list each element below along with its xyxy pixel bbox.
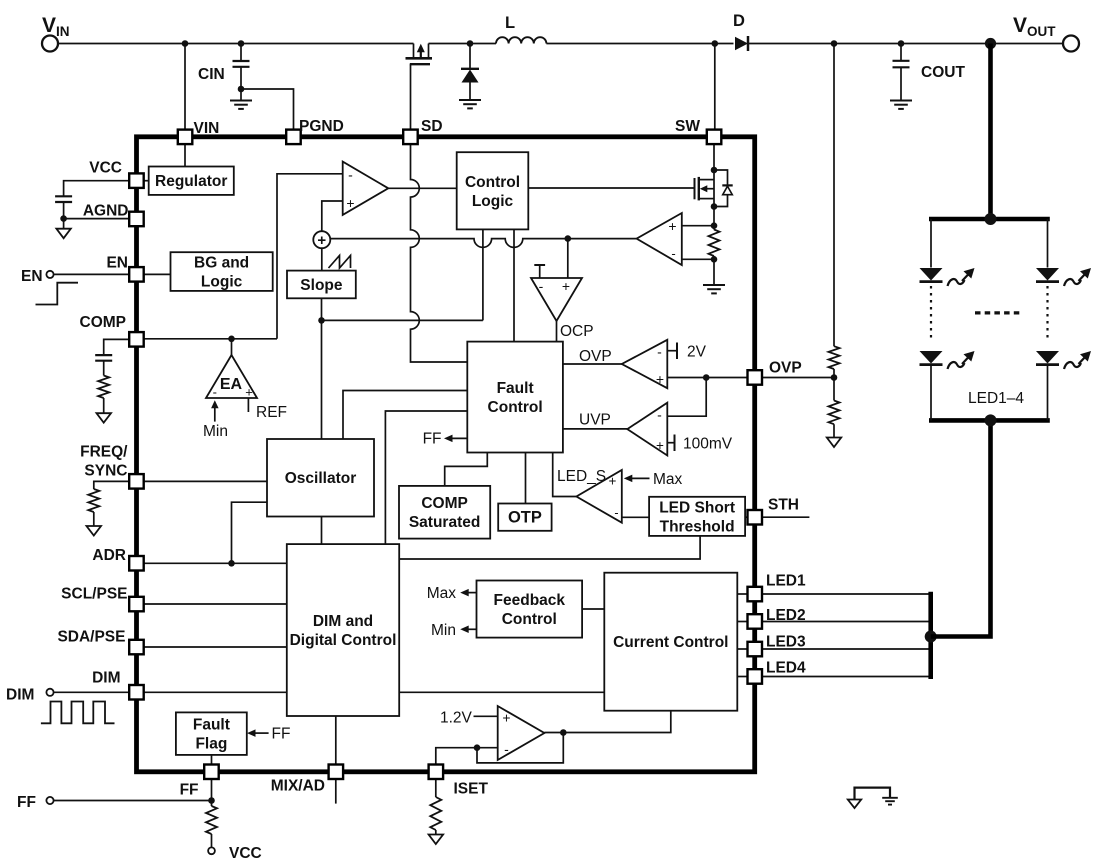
ground FREQ/SYNC (arrow) (87, 526, 102, 536)
wire OVP lower resistor to ground (833, 424, 835, 437)
EA REF input (247, 398, 249, 412)
svg-text:ISET: ISET (454, 781, 489, 798)
LED D6 (string 2 bottom) (1036, 351, 1091, 369)
label pin MIX/AD (271, 778, 325, 795)
wire gate from Control Logic (528, 187, 694, 189)
svg-text:Control: Control (465, 174, 520, 191)
wire D to VOUT (747, 43, 1063, 45)
diode D2 clamp (cathode up) (461, 69, 479, 100)
wire CS amp plus input (682, 225, 714, 227)
op-amp OVP comparator (622, 340, 668, 388)
wire LED Short Threshold to STH pin (745, 516, 747, 518)
wire LED return bus (thick) (928, 592, 933, 679)
DIM PWM waveform symbol (41, 702, 115, 724)
wire COMP pin to RC (104, 339, 130, 354)
wire control logic pin1 horizontal (322, 319, 483, 321)
pin LED4 (748, 669, 763, 684)
label pin OVP (769, 360, 802, 377)
svg-text:D: D (733, 12, 745, 30)
svg-text:Logic: Logic (472, 193, 514, 210)
wire Q1 to L (429, 43, 497, 45)
wire LED string2 top lead (1047, 219, 1049, 268)
wire Control Logic pin1 down (482, 229, 484, 320)
svg-text:SYNC: SYNC (84, 463, 127, 480)
diode body diode of Q2 (714, 170, 733, 207)
wire SD pin line with hop bumps to Fault Control (411, 144, 468, 362)
svg-text:-: - (348, 167, 353, 183)
ground clamp diode (earth) (459, 100, 481, 108)
node VCC terminal (208, 847, 215, 854)
wire FF resistor to VCC (211, 834, 213, 848)
wire COMP pin line (144, 338, 278, 340)
wire LED string1 dotted (930, 286, 932, 338)
svg-text:Control: Control (502, 611, 557, 628)
svg-text:UVP: UVP (579, 412, 611, 429)
wire clamp diode lead (469, 44, 471, 69)
junction slope-control logic node (318, 317, 325, 324)
label 100mV (683, 436, 733, 453)
summing node (slope add) (313, 231, 330, 249)
svg-text:FF: FF (272, 726, 291, 743)
capacitor VCC bypass (55, 196, 72, 202)
label pin VCC (89, 160, 122, 177)
wire FREQ resistor to ground (93, 512, 95, 526)
label pin DIM (92, 670, 120, 687)
label 1.2V (440, 710, 473, 727)
block Oscillator (267, 439, 374, 517)
label REF (256, 404, 287, 421)
svg-text:-: - (504, 741, 509, 757)
pin SCL/PSE (129, 597, 144, 612)
wire CIN bottom lead (240, 67, 242, 89)
junction OCP tap on CS line (565, 235, 572, 242)
label pin LED1 (766, 573, 806, 590)
op-amp UVP comparator (627, 403, 667, 456)
svg-text:CIN: CIN (198, 66, 225, 83)
wire LED string2 bottom lead (1047, 366, 1049, 421)
wire FF pin down (211, 779, 213, 806)
svg-text:-: - (657, 344, 662, 360)
wire Q1 gate to SD pin (410, 64, 412, 130)
label pin SCL/PSE (61, 586, 127, 603)
wire Fault Control to COMP Saturated (445, 453, 488, 486)
wire CS amp minus input (682, 258, 714, 260)
block Fault Flag (176, 712, 247, 755)
OCP minus reference (534, 265, 545, 278)
pin LED2 (748, 614, 763, 629)
svg-text:PGND: PGND (299, 118, 344, 135)
pin SD (403, 130, 418, 145)
wire VCC cap to AGND node (63, 202, 65, 219)
op-amp EA error amplifier (206, 355, 257, 400)
junction CIN tap (238, 40, 245, 47)
junction OVP node (703, 374, 710, 381)
svg-text:-: - (657, 407, 662, 423)
svg-text:OCP: OCP (560, 323, 594, 340)
svg-text:OVP: OVP (579, 348, 612, 365)
label pin STH (768, 497, 799, 514)
op-amp CS current sense amplifier (637, 213, 682, 265)
wire DIM terminal to pin (54, 691, 130, 693)
svg-text:FF: FF (17, 794, 36, 811)
wire LED string bottom rail (thick) (929, 418, 1050, 423)
label Min (feedback) (431, 622, 456, 639)
svg-text:Max: Max (427, 585, 457, 602)
block Current Control (604, 573, 737, 711)
svg-text:DIM and: DIM and (313, 613, 373, 630)
node DIM terminal (46, 689, 53, 696)
junction VOUT LED drop (thick) (985, 38, 996, 49)
junction MOSFET source node (711, 203, 718, 210)
svg-text:EN: EN (21, 268, 43, 285)
sawtooth slope symbol (329, 256, 351, 269)
wire ADR pin line (144, 562, 287, 564)
block COMP Saturated (399, 486, 490, 539)
svg-text:Slope: Slope (300, 277, 343, 294)
junction COUT tap (898, 40, 905, 47)
svg-text:EN: EN (106, 255, 128, 272)
junction LED return node (thick) (925, 631, 937, 643)
svg-text:Min: Min (203, 423, 228, 440)
wire LED return to string bottom (thick) (931, 420, 991, 636)
regulator block (149, 167, 234, 195)
junction clamp diode tap (467, 40, 474, 47)
op-amp LED_S comparator (576, 470, 621, 523)
wire OVP comparator output (563, 363, 622, 365)
wire summing node to Slope box (321, 248, 323, 270)
wire EN terminal to pin (54, 273, 130, 275)
label D (733, 12, 745, 30)
op-amp OCP comparator (531, 278, 582, 321)
svg-text:Fault: Fault (497, 380, 534, 397)
wire SW pin to internal MOSFET (713, 144, 715, 226)
resistor OVP upper (829, 346, 840, 369)
resistor FF pullup (206, 806, 217, 834)
wire LED string2 dotted (1046, 286, 1048, 338)
wire COMP resistor to ground (103, 398, 105, 413)
pin VCC (129, 173, 144, 188)
label VOUT (1013, 14, 1056, 39)
ground OVP divider (arrow) (827, 438, 841, 448)
wire buffer output to Current Control (544, 711, 670, 733)
IC U1 body outline (137, 137, 755, 772)
junction sense resistor bottom (711, 256, 718, 263)
wire CIN ground stem (240, 89, 242, 100)
ground CIN (earth) (230, 101, 252, 109)
label pin FF (180, 782, 199, 799)
wire ISET resistor to ground (435, 830, 437, 835)
pin SW (707, 130, 722, 145)
svg-text:SDA/PSE: SDA/PSE (57, 629, 125, 646)
svg-text:1.2V: 1.2V (440, 710, 473, 727)
svg-text:Regulator: Regulator (155, 173, 227, 190)
pin ISET (429, 765, 444, 780)
resistor ISET (430, 797, 441, 830)
label Max (LED_S) (653, 471, 683, 488)
wire MIX/AD stub (335, 779, 337, 804)
svg-text:LED1: LED1 (766, 573, 806, 590)
svg-text:DIM: DIM (92, 670, 120, 687)
node FF terminal (46, 797, 53, 804)
junction buffer minus node (474, 744, 481, 751)
svg-text:AGND: AGND (83, 203, 129, 220)
ground AGND (arrow) (56, 229, 70, 239)
label EN (external) (21, 268, 43, 285)
inductor L (496, 37, 546, 43)
svg-text:-: - (213, 385, 217, 400)
capacitor COUT (893, 61, 910, 68)
svg-text:Threshold: Threshold (660, 518, 735, 535)
junction FF node (208, 797, 215, 804)
junction VIN pin drop (182, 40, 189, 47)
wire COUT bottom lead (900, 67, 902, 100)
wire Current Control to LED4 pin (737, 676, 747, 678)
wire LED string1 bottom lead (930, 366, 932, 421)
label L (505, 14, 515, 32)
wire COMP cap to resistor (103, 361, 105, 376)
pin DIM (129, 685, 144, 700)
wire OCP plus input (567, 239, 569, 278)
wire SW pin drop (714, 44, 716, 131)
label pin AGND (83, 203, 129, 220)
svg-text:SW: SW (675, 118, 700, 135)
wire ISET pin to resistor (435, 779, 437, 797)
svg-text:+: + (656, 371, 664, 387)
wire Current Control to LED3 pin (737, 648, 747, 650)
wire VIN rail to Q1 (58, 43, 414, 45)
wire FREQ/SYNC pin to resistor (94, 481, 130, 489)
svg-text:FF: FF (180, 782, 199, 799)
label Max (feedback) (427, 585, 457, 602)
svg-text:Saturated: Saturated (409, 514, 481, 531)
capacitor CIN (233, 61, 250, 67)
junction LED top rail (thick) (985, 213, 997, 225)
svg-text:LED_S: LED_S (557, 468, 606, 485)
svg-text:LED2: LED2 (766, 607, 806, 624)
junction SW drop (712, 40, 719, 47)
wire Feedback Control to Current Control (582, 608, 604, 610)
ground legend (arrow) (848, 800, 861, 809)
label FF (external) (17, 794, 36, 811)
wire VIN pin drop (184, 44, 186, 131)
label COUT (921, 64, 965, 81)
pin SDA/PSE (129, 640, 144, 655)
ground ISET (arrow) (429, 835, 444, 845)
wire ISET pin to buffer minus (436, 748, 498, 765)
svg-text:SCL/PSE: SCL/PSE (61, 586, 127, 603)
wire LED string top rail (thick) (929, 217, 1050, 222)
pin OVP (748, 370, 763, 385)
svg-text:LED1–4: LED1–4 (968, 390, 1024, 407)
svg-text:+: + (668, 218, 676, 234)
Max input arrow to LED_S (624, 475, 650, 483)
pin COMP (129, 332, 144, 347)
label pin SDA/PSE (57, 629, 125, 646)
svg-text:Min: Min (431, 622, 456, 639)
svg-text:EA: EA (220, 376, 243, 393)
svg-text:Logic: Logic (201, 274, 243, 291)
junction sense resistor top (711, 222, 718, 229)
svg-text:LED Short: LED Short (659, 499, 735, 516)
Min output arrow from Feedback Control (460, 626, 476, 634)
op-amp U3 ISET buffer (498, 706, 545, 760)
wire OVP plus to OVP pin (667, 377, 747, 379)
wire OVP divider mid (833, 369, 835, 401)
svg-text:COMP: COMP (421, 495, 468, 512)
pin PGND (286, 130, 301, 145)
wire UVP comparator output (563, 428, 627, 430)
label pin COMP (80, 314, 127, 331)
wire DIM block to Fault Control (385, 411, 467, 544)
svg-text:Digital Control: Digital Control (290, 632, 397, 649)
label DIM (external) (6, 687, 34, 704)
wire UVP minus to OVP node (667, 378, 706, 417)
svg-text:SD: SD (421, 118, 443, 135)
block Slope (287, 271, 356, 299)
svg-text:Fault: Fault (193, 717, 230, 734)
svg-text:Control: Control (488, 399, 543, 416)
wire COMP to PWM comparator minus (277, 174, 343, 339)
junction AGND node (60, 215, 67, 222)
label FF (into Fault Flag) (272, 726, 291, 743)
wire FREQ/SYNC pin to Oscillator (144, 480, 268, 482)
junction LED bottom rail (thick) (985, 414, 997, 426)
wire Control Logic pin2 to Fault Control (513, 229, 515, 341)
transistor Q2 internal power MOSFET (695, 177, 715, 201)
ellipsis between LED strings (975, 311, 1020, 314)
label VIN (42, 14, 70, 39)
wire VOUT to OVP divider (833, 44, 835, 347)
svg-text:+: + (346, 195, 354, 211)
label Min (EA) (203, 423, 228, 440)
block OTP (498, 504, 551, 531)
wire EN pin to BG block (144, 273, 171, 275)
label UVP (comparator) (579, 412, 611, 429)
transistor Q1 input disconnect MOSFET (406, 44, 433, 65)
wire AGND ground stem (63, 219, 65, 229)
svg-text:LED4: LED4 (766, 660, 806, 677)
node EN terminal (46, 271, 53, 278)
wire Oscillator to DIM block (321, 517, 323, 545)
wire AGND node to AGND pin (64, 218, 130, 220)
pin ADR (129, 556, 144, 571)
svg-text:-: - (671, 246, 675, 261)
junction EA output node (228, 336, 235, 343)
block BG and Logic (171, 252, 273, 291)
wire 1.2V to buffer plus (474, 715, 498, 717)
block Fault Control (467, 342, 563, 453)
svg-text:100mV: 100mV (683, 436, 733, 453)
svg-text:VCC: VCC (89, 160, 122, 177)
block Feedback Control (477, 581, 583, 638)
FF input arrow to Fault Flag (247, 729, 269, 737)
wire EA output (231, 339, 233, 355)
svg-text:VCC: VCC (229, 845, 262, 862)
svg-text:LED3: LED3 (766, 634, 806, 651)
LED D5 (string 2 top) (1036, 268, 1091, 286)
wire OVP pin to divider (762, 377, 834, 379)
label pin SD (421, 118, 443, 135)
ground legend bracket (855, 788, 891, 800)
svg-text:COMP: COMP (80, 314, 127, 331)
wire VCC pin to Regulator (144, 180, 149, 182)
wire LED string1 top lead (930, 219, 932, 268)
wire PWM comparator plus input (322, 201, 343, 231)
wire DIM block to MIX/AD pin (335, 716, 337, 765)
wire VOUT to LED string (thick) (988, 44, 993, 220)
ground COMP (arrow) (97, 413, 112, 423)
wire VIN pin to Regulator (184, 144, 186, 167)
svg-text:STH: STH (768, 497, 799, 514)
svg-text:+: + (656, 438, 664, 453)
resistor COMP compensation (98, 376, 109, 399)
svg-text:FF: FF (423, 431, 442, 448)
wire Fault Control to OTP (525, 453, 527, 504)
label LED1-4 (968, 390, 1024, 407)
wire Fault Control to LED_S output (553, 453, 577, 497)
label pin ISET (454, 781, 489, 798)
pin MIX/AD (329, 765, 344, 780)
op-amp PWM comparator (343, 162, 389, 215)
svg-text:Oscillator: Oscillator (285, 470, 357, 487)
junction buffer output node (560, 729, 567, 736)
svg-text:2V: 2V (687, 344, 707, 361)
label pin VIN (194, 120, 220, 137)
wire Oscillator to Fault Control (343, 391, 467, 440)
wire LED Short Threshold to DIM block (399, 536, 700, 559)
wire Current Control to LED1 pin (737, 593, 747, 595)
wire CIN top lead (240, 44, 242, 61)
junction ADR branch (228, 560, 235, 567)
junction CIN ground node (238, 86, 245, 93)
label 2V (687, 344, 707, 361)
node VIN input terminal (42, 36, 58, 52)
svg-text:-: - (539, 278, 544, 294)
svg-text:Flag: Flag (195, 736, 227, 753)
block Control Logic (457, 152, 529, 229)
label pin EN (106, 255, 128, 272)
wire DIM pin line (144, 691, 287, 693)
svg-text:Feedback: Feedback (494, 592, 566, 609)
label FF (fault output) (423, 431, 442, 448)
label pin PGND (299, 118, 344, 135)
svg-text:L: L (505, 14, 515, 32)
svg-text:OVP: OVP (769, 360, 802, 377)
ground internal sense (earth) (703, 285, 725, 293)
svg-text:FREQ/: FREQ/ (80, 444, 128, 461)
pin FF (204, 765, 219, 780)
label pin SW (675, 118, 700, 135)
svg-text:-: - (614, 506, 618, 520)
label OCP (560, 323, 594, 340)
svg-text:BG and: BG and (194, 255, 249, 272)
diode D boost rectifier (735, 36, 748, 51)
svg-text:ADR: ADR (92, 547, 126, 564)
svg-text:OTP: OTP (508, 509, 542, 527)
wire STH stub (762, 516, 810, 518)
wire OCP output to Fault Control (556, 321, 558, 342)
junction MOSFET drain node (711, 167, 718, 174)
wire FF terminal to pullup node (54, 800, 212, 802)
svg-text:DIM: DIM (6, 687, 34, 704)
pin EN (129, 267, 144, 282)
wire DIM block to Current Control (399, 691, 604, 693)
svg-text:+: + (609, 474, 617, 489)
block LED Short Threshold (649, 497, 745, 536)
wire SCL/PSE pin line (144, 603, 287, 605)
pin STH (748, 510, 763, 525)
label LED_S (557, 468, 606, 485)
